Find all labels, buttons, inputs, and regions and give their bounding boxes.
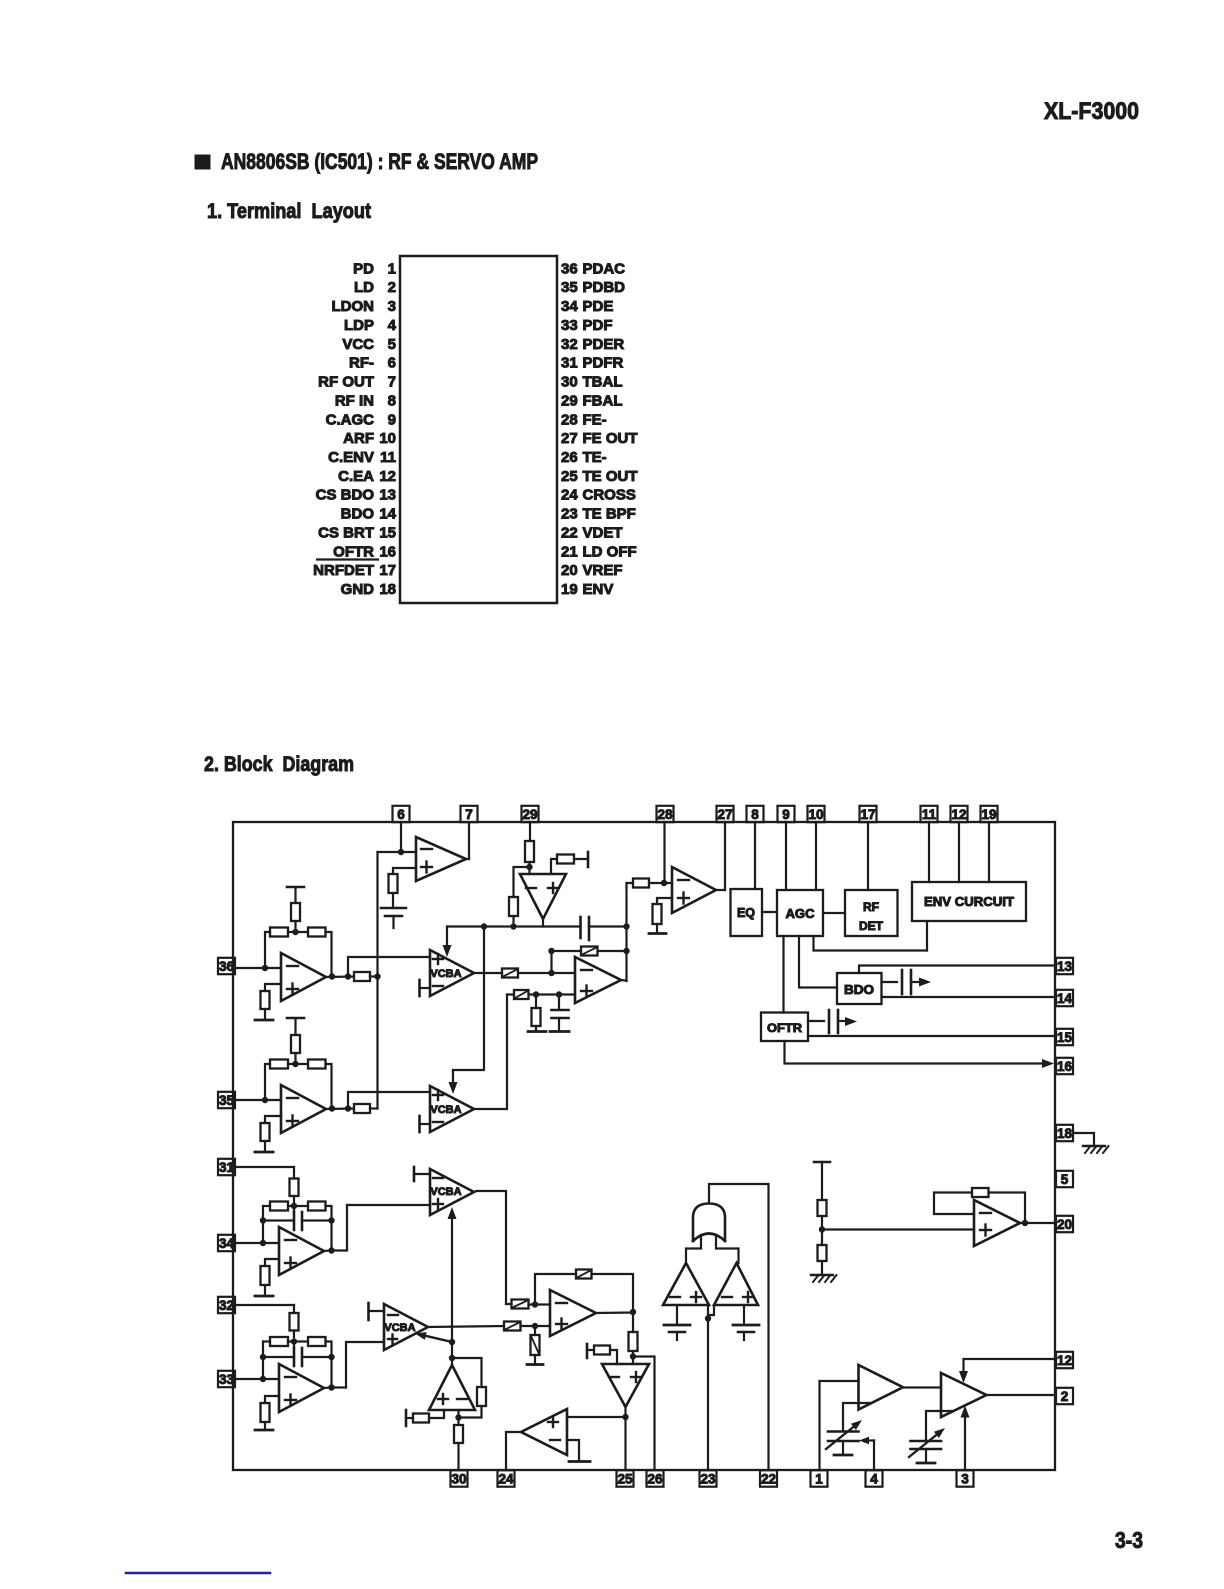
svg-text:28: 28 bbox=[657, 807, 673, 822]
svg-text:7: 7 bbox=[465, 807, 473, 822]
svg-text:3: 3 bbox=[961, 1471, 969, 1486]
svg-text:30: 30 bbox=[451, 1471, 466, 1486]
svg-text:35: 35 bbox=[219, 1093, 235, 1108]
svg-text:12: 12 bbox=[1057, 1353, 1072, 1368]
svg-text:26: 26 bbox=[647, 1471, 663, 1486]
svg-text:LDON: LDON bbox=[332, 298, 375, 315]
svg-text:ENV: ENV bbox=[583, 581, 614, 598]
svg-text:RF-: RF- bbox=[349, 355, 374, 372]
svg-text:22: 22 bbox=[761, 1471, 776, 1486]
svg-text:TBAL: TBAL bbox=[583, 374, 623, 391]
svg-text:BDO: BDO bbox=[341, 506, 375, 523]
svg-text:18: 18 bbox=[1057, 1126, 1073, 1141]
svg-text:EQ: EQ bbox=[737, 906, 755, 920]
svg-text:9: 9 bbox=[782, 807, 790, 822]
svg-text:34: 34 bbox=[561, 298, 578, 315]
svg-text:RF: RF bbox=[863, 900, 879, 914]
svg-text:5: 5 bbox=[1061, 1172, 1069, 1187]
svg-text:14: 14 bbox=[1057, 991, 1073, 1006]
svg-text:DET: DET bbox=[859, 919, 884, 933]
svg-text:CROSS: CROSS bbox=[583, 487, 636, 504]
svg-text:12: 12 bbox=[951, 807, 966, 822]
svg-text:11: 11 bbox=[922, 807, 937, 822]
svg-text:26: 26 bbox=[561, 449, 578, 466]
svg-text:VCC: VCC bbox=[342, 336, 374, 353]
svg-text:25: 25 bbox=[561, 468, 578, 485]
svg-text:VCBA: VCBA bbox=[430, 1104, 461, 1116]
svg-text:ARF: ARF bbox=[343, 430, 374, 447]
svg-text:FE OUT: FE OUT bbox=[583, 430, 638, 447]
svg-text:16: 16 bbox=[1057, 1059, 1073, 1074]
svg-text:22: 22 bbox=[561, 524, 578, 541]
svg-text:24: 24 bbox=[498, 1471, 514, 1486]
svg-text:CS BDO: CS BDO bbox=[316, 487, 375, 504]
svg-text:RF OUT: RF OUT bbox=[318, 374, 374, 391]
svg-text:LD OFF: LD OFF bbox=[583, 543, 637, 560]
svg-text:C.AGC: C.AGC bbox=[326, 411, 375, 428]
svg-text:CS BRT: CS BRT bbox=[318, 524, 374, 541]
svg-text:36: 36 bbox=[219, 959, 235, 974]
svg-text:27: 27 bbox=[717, 807, 732, 822]
svg-text:PDBD: PDBD bbox=[583, 279, 626, 296]
svg-text:PDER: PDER bbox=[583, 336, 625, 353]
svg-text:LD: LD bbox=[354, 279, 374, 296]
svg-text:FBAL: FBAL bbox=[583, 392, 623, 409]
svg-text:XL-F3000: XL-F3000 bbox=[1044, 98, 1139, 125]
svg-text:4: 4 bbox=[870, 1471, 878, 1486]
svg-text:NRFDET: NRFDET bbox=[313, 562, 374, 579]
svg-text:VCBA: VCBA bbox=[384, 1322, 415, 1334]
svg-text:OFTR: OFTR bbox=[333, 543, 374, 560]
svg-text:LDP: LDP bbox=[344, 317, 374, 334]
svg-text:36: 36 bbox=[561, 260, 578, 277]
svg-text:11: 11 bbox=[380, 449, 396, 466]
svg-text:28: 28 bbox=[561, 411, 578, 428]
svg-text:13: 13 bbox=[379, 487, 396, 504]
svg-text:25: 25 bbox=[617, 1471, 633, 1486]
svg-text:ENV CURCUIT: ENV CURCUIT bbox=[924, 895, 1014, 909]
svg-text:29: 29 bbox=[561, 392, 578, 409]
svg-text:16: 16 bbox=[379, 543, 396, 560]
svg-text:6: 6 bbox=[397, 807, 405, 822]
svg-text:31: 31 bbox=[219, 1160, 235, 1175]
svg-text:PDE: PDE bbox=[583, 298, 614, 315]
svg-text:17: 17 bbox=[379, 562, 396, 579]
svg-text:30: 30 bbox=[561, 374, 578, 391]
svg-text:14: 14 bbox=[379, 506, 396, 523]
svg-text:23: 23 bbox=[561, 506, 578, 523]
svg-text:3-3: 3-3 bbox=[1115, 1527, 1143, 1553]
svg-text:10: 10 bbox=[808, 807, 823, 822]
svg-text:PD: PD bbox=[353, 260, 374, 277]
svg-text:35: 35 bbox=[561, 279, 578, 296]
svg-text:15: 15 bbox=[379, 524, 396, 541]
svg-text:20: 20 bbox=[1057, 1217, 1072, 1232]
svg-text:8: 8 bbox=[751, 807, 759, 822]
svg-text:24: 24 bbox=[561, 487, 578, 504]
svg-text:33: 33 bbox=[561, 317, 578, 334]
svg-text:TE BPF: TE BPF bbox=[583, 506, 636, 523]
svg-text:33: 33 bbox=[219, 1372, 235, 1387]
svg-text:VDET: VDET bbox=[583, 524, 623, 541]
svg-text:BDO: BDO bbox=[844, 983, 874, 997]
svg-text:2. Block Diagram: 2. Block Diagram bbox=[204, 753, 354, 776]
svg-text:21: 21 bbox=[561, 543, 578, 560]
svg-text:2: 2 bbox=[388, 279, 396, 296]
svg-text:31: 31 bbox=[561, 355, 578, 372]
svg-text:8: 8 bbox=[388, 392, 396, 409]
svg-text:GND: GND bbox=[341, 581, 375, 598]
svg-text:23: 23 bbox=[700, 1471, 716, 1486]
svg-text:VREF: VREF bbox=[583, 562, 623, 579]
svg-text:PDF: PDF bbox=[583, 317, 613, 334]
svg-text:32: 32 bbox=[219, 1298, 234, 1313]
svg-text:OFTR: OFTR bbox=[767, 1021, 802, 1035]
svg-text:6: 6 bbox=[388, 355, 396, 372]
svg-text:19: 19 bbox=[981, 807, 996, 822]
svg-text:2: 2 bbox=[1061, 1389, 1069, 1404]
svg-text:5: 5 bbox=[388, 336, 396, 353]
svg-text:4: 4 bbox=[388, 317, 397, 334]
svg-text:27: 27 bbox=[561, 430, 578, 447]
svg-text:AGC: AGC bbox=[786, 907, 815, 921]
svg-text:1: 1 bbox=[815, 1471, 823, 1486]
svg-text:C.ENV: C.ENV bbox=[328, 449, 374, 466]
svg-text:29: 29 bbox=[522, 807, 537, 822]
svg-text:VCBA: VCBA bbox=[430, 968, 461, 980]
svg-text:1. Terminal Layout: 1. Terminal Layout bbox=[207, 200, 371, 223]
svg-text:AN8806SB (IC501) : RF & SERVO: AN8806SB (IC501) : RF & SERVO AMP bbox=[221, 149, 538, 174]
svg-text:VCBA: VCBA bbox=[430, 1186, 461, 1198]
svg-text:15: 15 bbox=[1057, 1030, 1073, 1045]
svg-text:17: 17 bbox=[860, 807, 875, 822]
svg-text:32: 32 bbox=[561, 336, 578, 353]
svg-text:34: 34 bbox=[219, 1236, 235, 1251]
svg-text:FE-: FE- bbox=[583, 411, 607, 428]
svg-text:PDFR: PDFR bbox=[583, 355, 624, 372]
svg-text:19: 19 bbox=[561, 581, 578, 598]
svg-text:9: 9 bbox=[388, 411, 396, 428]
svg-text:RF IN: RF IN bbox=[335, 392, 374, 409]
svg-text:TE-: TE- bbox=[583, 449, 607, 466]
svg-text:1: 1 bbox=[388, 260, 396, 277]
svg-text:3: 3 bbox=[388, 298, 396, 315]
svg-text:PDAC: PDAC bbox=[583, 260, 626, 277]
svg-text:7: 7 bbox=[388, 374, 396, 391]
svg-text:12: 12 bbox=[379, 468, 396, 485]
svg-text:10: 10 bbox=[379, 430, 396, 447]
svg-text:13: 13 bbox=[1057, 959, 1073, 974]
svg-text:TE OUT: TE OUT bbox=[583, 468, 638, 485]
svg-text:20: 20 bbox=[561, 562, 578, 579]
svg-text:18: 18 bbox=[379, 581, 396, 598]
svg-text:C.EA: C.EA bbox=[338, 468, 374, 485]
